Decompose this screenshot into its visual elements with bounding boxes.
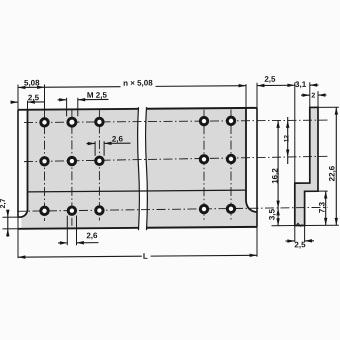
dimension 2,5 bottom strip xyxy=(294,226,296,243)
svg-text:16,2: 16,2 xyxy=(271,168,280,184)
svg-text:12: 12 xyxy=(284,135,291,143)
column 3 centerline xyxy=(98,109,100,220)
dimension 2,5 top right xyxy=(257,84,295,86)
hole row1 col4 xyxy=(200,117,207,124)
hole row2 col4 xyxy=(200,156,207,163)
dimension 2,6 middle hole xyxy=(94,141,96,156)
column 4 centerline xyxy=(203,110,205,220)
left outer end edge xyxy=(17,110,19,217)
hole row1 col2 M2.5 xyxy=(68,118,76,126)
dimension 3,1 xyxy=(310,84,319,86)
dimension L overall length xyxy=(17,217,19,258)
extension side bottom left xyxy=(272,225,295,227)
step bend line across plate xyxy=(28,190,247,192)
svg-text:3,1: 3,1 xyxy=(295,80,307,89)
hole row1 col3 xyxy=(96,118,103,125)
dimension M 2,5 thread callout xyxy=(66,98,68,117)
hole row1 col5 xyxy=(227,117,234,124)
svg-text:22,6: 22,6 xyxy=(328,165,337,181)
extension line bend left up xyxy=(27,101,29,110)
hole row3 col4 xyxy=(200,205,207,212)
break line left xyxy=(138,107,140,230)
dimension 16,2 row1-row3 xyxy=(277,120,279,225)
dimension 5,08 xyxy=(18,86,121,89)
hole row3 col2 xyxy=(68,207,75,214)
row 2 centerline xyxy=(24,156,328,161)
dimension 12 row1-row2 xyxy=(287,117,289,164)
plate front view: gray face left piece xyxy=(21,109,138,229)
hole row1 col1 xyxy=(41,119,48,126)
plate top edge right piece xyxy=(147,107,258,110)
column 2 centerline xyxy=(71,109,73,225)
row 1 centerline xyxy=(24,120,328,122)
svg-text:2,5: 2,5 xyxy=(28,93,40,102)
svg-text:2,6: 2,6 xyxy=(112,135,124,144)
hole row2 col1 xyxy=(41,158,48,165)
extension line right bend up xyxy=(245,84,247,108)
svg-text:M 2,5: M 2,5 xyxy=(87,91,108,100)
left bend line with fillet xyxy=(21,110,27,217)
plate bottom edge right piece xyxy=(147,226,258,229)
side view: gray section profile xyxy=(295,107,318,225)
hole row2 col5 xyxy=(227,155,234,162)
left flange bottom edge xyxy=(18,216,22,218)
extension step right for 7,3 xyxy=(318,190,328,192)
extension line side top strip left up xyxy=(309,82,311,107)
break squiggle on lower strip bottom xyxy=(296,223,302,226)
hole row3 col1 xyxy=(41,207,48,214)
dimension n x 5,08 xyxy=(156,85,247,88)
extension line side top strip right up xyxy=(317,91,319,107)
svg-text:2: 2 xyxy=(311,92,315,99)
svg-text:7,3: 7,3 xyxy=(317,201,326,213)
svg-text:n × 5,08: n × 5,08 xyxy=(123,78,153,87)
break line right xyxy=(146,107,148,230)
dimension 2,6 bottom hole xyxy=(66,216,68,246)
hole row3 col5 xyxy=(227,205,234,212)
extension side top right xyxy=(318,106,339,108)
dimension 2,7 left height xyxy=(3,216,19,218)
hole row2 col2 xyxy=(68,157,75,164)
right bend line with fillet xyxy=(246,108,257,212)
svg-text:L: L xyxy=(143,252,148,261)
extension line right outer up xyxy=(256,83,258,108)
svg-text:2,7: 2,7 xyxy=(0,198,7,208)
extension line col1 up xyxy=(44,84,46,109)
extension side bottom right xyxy=(305,224,339,226)
svg-text:2,6: 2,6 xyxy=(86,231,98,240)
svg-text:2,5: 2,5 xyxy=(294,240,306,249)
svg-text:2,5: 2,5 xyxy=(264,75,276,84)
svg-text:5,08: 5,08 xyxy=(24,78,40,87)
plate top edge left piece xyxy=(18,108,139,111)
dimension 2,5 left flange xyxy=(11,101,19,103)
plate front view: gray face right piece xyxy=(147,108,258,228)
dimension 3,5 row3-bottom xyxy=(276,208,279,215)
row 3 centerline xyxy=(17,207,328,211)
svg-text:3,5: 3,5 xyxy=(267,208,276,220)
extension line left outer edge up xyxy=(17,85,19,110)
dimension 2 wall xyxy=(301,94,310,96)
hole row2 col3 dia 2.6 xyxy=(96,157,103,164)
hole row3 col3 xyxy=(96,207,103,214)
right outer end edge xyxy=(256,108,258,227)
dimension 22,6 overall height xyxy=(335,107,337,225)
column 1 centerline xyxy=(44,110,46,221)
column 5 centerline xyxy=(230,109,232,219)
extension line side lower strip left up xyxy=(294,82,296,183)
dimension 7,3 xyxy=(325,191,327,225)
plate bottom edge left piece xyxy=(18,227,139,230)
